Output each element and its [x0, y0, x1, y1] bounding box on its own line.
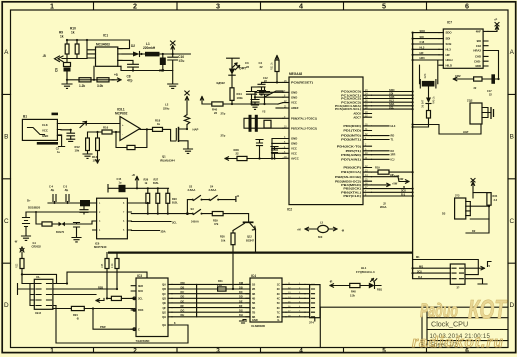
bus wires to IC4	[197, 284, 250, 316]
capacitor C8	[118, 60, 139, 70]
svg-text:1.2k: 1.2k	[79, 84, 85, 88]
IC3 left pins	[131, 286, 136, 330]
title block	[320, 307, 508, 347]
svg-text:9DD: 9DD	[475, 64, 481, 68]
wires bus to header J3	[413, 268, 451, 279]
svg-text:27p: 27p	[221, 112, 226, 116]
pull-up bottoms	[148, 203, 168, 213]
capacitor avcc 2	[271, 147, 278, 159]
svg-text:AVCC: AVCC	[291, 156, 299, 160]
svg-text:1k: 1k	[157, 122, 161, 126]
resistor R13 vertical	[96, 138, 100, 151]
buzzer box ZQ2	[470, 103, 482, 124]
svg-text:2B: 2B	[252, 287, 255, 291]
svg-text:7B: 7B	[252, 310, 255, 314]
title block left edge	[426, 307, 428, 347]
svg-text:4HF: 4HF	[476, 30, 482, 34]
svg-text:R27: R27	[154, 177, 159, 181]
svg-text:DH: DH	[239, 313, 243, 317]
svg-text:radiokot.ru: radiokot.ru	[412, 335, 504, 351]
svg-text:RB1: RB1	[377, 288, 383, 292]
svg-text:DD: DD	[239, 295, 243, 299]
svg-text:DB: DB	[239, 285, 243, 289]
svg-text:R31 1k: R31 1k	[271, 62, 274, 70]
svg-text:ADC7: ADC7	[353, 115, 361, 119]
svg-text:QH: QH	[162, 323, 166, 327]
svg-text:PD0(RXD): PD0(RXD)	[343, 124, 361, 128]
svg-text:9DI: 9DI	[477, 39, 482, 43]
column numbers bottom	[50, 348, 469, 355]
svg-text:QG: QG	[162, 310, 166, 314]
svg-text:+5W: +5W	[392, 181, 398, 185]
svg-text:QB: QB	[162, 287, 166, 291]
svg-text:74HC595D: 74HC595D	[136, 339, 150, 343]
svg-text:QE: QE	[162, 301, 166, 305]
svg-text:BC847: BC847	[246, 239, 255, 243]
column tick marks top	[94, 2, 427, 10]
resistor R26	[146, 193, 150, 203]
svg-text:100k: 100k	[237, 96, 244, 100]
MOSFET Q1	[176, 127, 192, 154]
svg-text:DG: DG	[181, 309, 185, 313]
svg-text:3B: 3B	[252, 292, 255, 296]
svg-text:C: C	[4, 218, 9, 225]
wire row y104	[202, 103, 283, 104]
svg-text:DF: DF	[239, 304, 243, 308]
svg-text:IC1: IC1	[103, 34, 108, 38]
crystal Y1 32K	[422, 81, 435, 87]
svg-text:1k: 1k	[71, 31, 75, 35]
svg-text:5: 5	[382, 2, 386, 11]
svg-text:3?4: 3?4	[309, 321, 314, 325]
svg-text:D3: D3	[442, 212, 446, 216]
svg-text:DH: DH	[181, 313, 185, 317]
MCU left pin stubs	[283, 82, 289, 158]
svg-text:PB7(CLK): PB7(CLK)	[343, 194, 361, 198]
svg-text:SDO: SDO	[446, 31, 453, 35]
crystal Y2 cluster	[244, 118, 283, 128]
svg-text:DC: DC	[239, 290, 243, 294]
svg-text:X1-: X1-	[36, 275, 40, 279]
inductor L1	[145, 52, 160, 57]
svg-text:IC4: IC4	[251, 274, 256, 278]
svg-text:PB1(OC1A): PB1(OC1A)	[341, 170, 361, 174]
svg-text:3FR: 3FR	[391, 153, 396, 157]
caps C-4 C-3	[53, 195, 69, 204]
svg-text:MCP7940: MCP7940	[94, 245, 107, 249]
svg-text:DC: DC	[181, 290, 185, 294]
hanger resistors x107 x117	[107, 253, 117, 299]
svg-text:1k: 1k	[60, 35, 64, 39]
node dots top rail	[66, 39, 68, 41]
svg-text:A: A	[4, 49, 9, 56]
svg-text:2.2k: 2.2k	[350, 293, 356, 297]
sensor pin stubs	[57, 124, 61, 136]
svg-text:22: 22	[236, 152, 240, 156]
ground under C9	[62, 72, 72, 89]
resistor R8	[65, 44, 69, 54]
divider wires	[83, 132, 102, 158]
svg-text:3.0k: 3.0k	[97, 84, 103, 88]
svg-text:4: 4	[299, 348, 303, 355]
svg-text:C15: C15	[117, 177, 122, 181]
svg-text:FYQ5641CA-3: FYQ5641CA-3	[356, 270, 375, 274]
svg-text:6B: 6B	[252, 306, 255, 310]
svg-text:B.BL: B.BL	[172, 201, 178, 205]
diode D2	[122, 53, 133, 55]
svg-text:10k: 10k	[221, 239, 226, 243]
svg-text:R30: R30	[220, 235, 225, 239]
svg-text:3?: 3?	[457, 285, 460, 289]
svg-text:10B: 10B	[101, 263, 104, 268]
diode D6 + resistor chain	[413, 88, 429, 127]
svg-text:3.3: 3.3	[494, 198, 498, 202]
header J3 box	[450, 264, 465, 284]
svg-text:3: 3	[216, 348, 220, 355]
svg-text:CR2032: CR2032	[32, 245, 42, 249]
svg-text:1C: 1C	[277, 283, 280, 287]
capacitor avcc 1	[256, 140, 263, 159]
resistor R16 horizontal	[102, 130, 112, 134]
svg-text:R23: R23	[172, 197, 177, 201]
svg-text:3CL: 3CL	[138, 297, 143, 301]
wire mid rail y54	[140, 53, 191, 55]
svg-text:PD6(AIN0): PD6(AIN0)	[341, 153, 361, 157]
svg-text:-M: -M	[341, 228, 344, 232]
wires MCU to I2C bus	[372, 92, 413, 110]
wire to gate	[163, 129, 176, 141]
capacitor C4	[252, 87, 270, 104]
vertical bus x196.6	[196, 284, 198, 316]
svg-text:C18: C18	[476, 44, 482, 48]
svg-text:CHD: CHD	[475, 55, 481, 59]
svg-text:КОТ: КОТ	[468, 295, 508, 325]
resistor R2B	[166, 193, 170, 203]
svg-text:A: A	[510, 49, 515, 56]
svg-text:5B: 5B	[252, 301, 255, 305]
photo detector FT1	[227, 58, 240, 88]
svg-text:C-3: C-3	[63, 184, 68, 188]
power arrow +B X top	[185, 91, 189, 100]
capacitor C14 + arrow	[119, 185, 126, 192]
svg-text:28AA: 28AA	[380, 205, 387, 209]
svg-text:R-3: R-3	[401, 192, 406, 196]
svg-text:SDI: SDI	[446, 37, 451, 41]
resistor R12 horizontal	[97, 78, 109, 82]
svg-text:PD3(INT1): PD3(INT1)	[341, 138, 361, 142]
svg-text:2.2k: 2.2k	[111, 263, 114, 268]
capacitor C9 electrolytic	[64, 63, 71, 67]
node dots bottom rail	[66, 79, 68, 81]
svg-text:+M: +M	[297, 228, 301, 232]
buzzer wire to bus	[413, 124, 481, 134]
MCU right pin stubs	[363, 92, 372, 197]
row letters right	[509, 49, 514, 309]
wires MCU bottom right nets	[372, 183, 413, 196]
MCU IC2 box	[289, 77, 363, 205]
IC1 right pin stubs	[118, 49, 122, 67]
wire row 214	[131, 213, 187, 215]
resistor R12b vertical	[86, 138, 90, 151]
svg-text:SDO: SDO	[389, 88, 395, 92]
resistor R31 vertical + arrow	[262, 56, 283, 83]
svg-text:VCC: VCC	[291, 147, 297, 151]
svg-text:HILD: HILD	[446, 63, 453, 67]
svg-text:R45 1k: R45 1k	[433, 96, 436, 104]
column tick marks bottom	[94, 348, 427, 353]
svg-text:PD1(TXD): PD1(TXD)	[343, 129, 361, 133]
power arrow +5 right	[471, 179, 475, 193]
svg-text:2: 2	[133, 2, 137, 11]
svg-text:PC5(ADC5-SCL): PC5(ADC5-SCL)	[335, 107, 361, 111]
svg-text:47k: 47k	[214, 222, 219, 226]
svg-text:22: 22	[246, 65, 250, 69]
wire IC7 right down	[488, 51, 499, 80]
resistor R48	[350, 283, 360, 287]
svg-text:CLK: CLK	[42, 123, 48, 127]
cap C-3b	[72, 223, 81, 242]
resistor R10	[75, 44, 79, 54]
svg-text:QD: QD	[162, 297, 166, 301]
svg-text:1: 1	[50, 2, 54, 11]
wire MISO row with resistor R19	[372, 171, 413, 173]
svg-text:-: -	[122, 132, 123, 136]
svg-text:MEGA48: MEGA48	[289, 72, 302, 76]
svg-text:Y2: Y2	[262, 110, 266, 114]
svg-text:+B: +B	[132, 173, 135, 177]
switch row 1: S2 S4	[187, 196, 236, 214]
svg-text:Радио: Радио	[420, 301, 458, 322]
svg-text:D+: D+	[27, 198, 31, 202]
svg-text:220u: 220u	[163, 107, 170, 111]
svg-text:B.BL: B.BL	[153, 181, 159, 185]
wire down right D2	[466, 219, 489, 233]
wire left vertical x87 with IC stubs	[87, 40, 96, 59]
inductor L2 zigzag	[184, 97, 189, 130]
svg-text:BAV70: BAV70	[56, 230, 65, 234]
svg-text:R24: R24	[73, 313, 78, 317]
arrow left -IR	[330, 284, 350, 287]
svg-text:GND: GND	[291, 137, 297, 141]
svg-text:3CL: 3CL	[172, 220, 177, 224]
IC3 box	[136, 278, 168, 337]
svg-text:C9: C9	[55, 68, 59, 72]
svg-text:B: B	[4, 134, 8, 141]
svg-text:DG: DG	[239, 309, 243, 313]
wire sensor out to op-amp	[61, 123, 120, 125]
svg-text:HL3: HL3	[420, 46, 425, 50]
svg-text:GND: GND	[291, 90, 297, 94]
svg-text:IC7: IC7	[447, 20, 452, 24]
svg-text:C18: C18	[420, 40, 425, 44]
svg-text:4: 4	[299, 2, 303, 11]
svg-text:R22: R22	[16, 263, 19, 268]
svg-text:HL3: HL3	[446, 47, 452, 51]
wire diagonal jog to MCU	[265, 91, 284, 97]
svg-text:7C: 7C	[277, 310, 280, 314]
svg-text:1u: 1u	[57, 150, 60, 154]
wire bottom rail y79.8	[67, 66, 114, 80]
AVCC filter row	[225, 157, 283, 161]
svg-text:B: B	[510, 134, 514, 141]
resistor R41 on row 289	[218, 287, 226, 291]
feedback loop R17	[116, 129, 153, 147]
svg-text:R16: R16	[103, 126, 109, 130]
svg-text:ULN2803D: ULN2803D	[251, 324, 265, 328]
wire rows into IC6	[26, 203, 93, 212]
svg-text:R2B: R2B	[98, 285, 103, 289]
svg-text:1u: 1u	[119, 180, 122, 184]
power arrow +5	[200, 97, 203, 105]
svg-text:-IR: -IR	[329, 279, 333, 283]
capacitor C11	[61, 130, 75, 139]
svg-text:DB: DB	[181, 285, 185, 289]
svg-text:ICJ: ICJ	[391, 157, 396, 161]
thick divider line	[108, 251, 413, 253]
svg-text:M: M	[403, 185, 405, 189]
svg-text:PD4(XCK-T0): PD4(XCK-T0)	[337, 144, 361, 148]
column numbers top	[50, 2, 469, 11]
svg-text:PB6(XTAL1-TOSC1): PB6(XTAL1-TOSC1)	[291, 116, 317, 120]
svg-text:+5W: +5W	[398, 177, 404, 181]
svg-text:R48: R48	[351, 290, 356, 294]
svg-text:SCB: SCB	[389, 95, 395, 99]
svg-text:HL3: HL3	[389, 99, 394, 103]
svg-text:+P: +P	[494, 18, 497, 22]
power arrow +5 pullups	[135, 177, 138, 189]
svg-text:R29: R29	[213, 218, 218, 222]
IC3 right pins	[168, 284, 172, 316]
svg-text:R41: R41	[218, 279, 223, 283]
svg-text:КД522: КД522	[217, 81, 226, 85]
ground	[67, 139, 75, 141]
svg-text:4C: 4C	[277, 297, 280, 301]
stub row 108	[276, 107, 283, 109]
svg-text:22: 22	[214, 111, 218, 115]
svg-text:HRA3: HRA3	[473, 49, 481, 53]
P5W wire to IC3 OE	[93, 309, 131, 330]
wire row 176.7 with +5W arrow	[372, 177, 410, 184]
svg-text:QC: QC	[162, 292, 166, 296]
svg-text:DD: DD	[181, 295, 185, 299]
M1 loop wire	[413, 260, 479, 275]
svg-text:2C: 2C	[277, 287, 280, 291]
svg-text:5C: 5C	[277, 301, 280, 305]
svg-text:DM: DM	[239, 281, 243, 285]
svg-text:IC2: IC2	[287, 207, 292, 211]
capacitor C7 electrolytic	[162, 54, 164, 58]
svg-text:D: D	[509, 302, 514, 309]
svg-text:PD7(AIN1): PD7(AIN1)	[341, 157, 361, 161]
svg-text:DE: DE	[239, 299, 243, 303]
op IC1 MC34063 box	[96, 47, 118, 66]
wires IC4 to display conn	[286, 284, 305, 316]
capacitor C3	[247, 87, 257, 104]
svg-text:DF: DF	[181, 304, 185, 308]
svg-text:10k: 10k	[75, 149, 80, 153]
svg-text:HAP: HAP	[463, 130, 469, 134]
svg-text:P5W: P5W	[100, 325, 106, 329]
wire pin3 stub	[58, 135, 65, 147]
svg-text:QA: QA	[162, 283, 166, 287]
svg-text:MCP602: MCP602	[115, 112, 128, 116]
svg-text:SCB: SCB	[446, 42, 452, 46]
svg-text:HIF: HIF	[420, 51, 425, 55]
resistor R33 row 298	[107, 297, 133, 299]
capacitor C10	[168, 54, 178, 71]
wire top rail y40	[67, 40, 130, 49]
svg-text:47p: 47p	[127, 79, 133, 83]
battery CR2 row	[453, 77, 498, 80]
svg-text:PC6(RESET): PC6(RESET)	[291, 81, 313, 85]
svg-text:32K: 32K	[423, 73, 427, 78]
row tick marks right	[508, 94, 516, 263]
svg-text:PB2(SS-OC1B): PB2(SS-OC1B)	[335, 175, 361, 179]
svg-text:1: 1	[50, 348, 54, 355]
svg-text:HAP: HAP	[193, 128, 199, 132]
IC4 ground	[240, 320, 247, 324]
svg-text:CR2: CR2	[455, 74, 461, 78]
svg-text:X2-8: X2-8	[35, 311, 41, 315]
left gnd-vcc block verticals	[272, 139, 283, 159]
header pin3 gnd	[465, 279, 487, 284]
IC7 left pin stubs	[439, 33, 443, 66]
svg-text:HR3: HR3	[420, 56, 426, 60]
svg-text:GND: GND	[42, 134, 48, 138]
wire to IC6 pin 3	[77, 221, 93, 224]
RTC IC7 box	[443, 29, 483, 68]
bus vertical line x412	[412, 33, 414, 279]
bottom route wire	[56, 306, 188, 344]
svg-text:6: 6	[465, 2, 469, 11]
svg-text:R26: R26	[144, 177, 149, 181]
IC7 right pin stubs	[483, 31, 488, 66]
svg-text:2: 2	[133, 348, 137, 355]
svg-text:HL3: HL3	[391, 124, 396, 128]
svg-text:IRLML6344: IRLML6344	[160, 159, 175, 163]
title block row dividers	[427, 318, 508, 341]
svg-text:D6 BAT: D6 BAT	[422, 99, 425, 108]
svg-text:DE: DE	[181, 299, 185, 303]
svg-text:27p: 27p	[221, 134, 226, 138]
svg-text:GND: GND	[291, 142, 297, 146]
resistor R30 vertical	[231, 233, 235, 245]
svg-text:ZQ2: ZQ2	[467, 98, 473, 102]
svg-text:DS18B20: DS18B20	[28, 206, 41, 210]
conn bottom stub	[314, 318, 316, 321]
svg-text:SDI: SDI	[420, 35, 425, 39]
svg-text:C: C	[138, 327, 140, 331]
resistor R27	[156, 193, 160, 203]
svg-text:D: D	[4, 302, 9, 309]
arrow left row 300	[96, 298, 104, 302]
svg-text:VCC: VCC	[42, 129, 48, 133]
sensor B1 box	[22, 119, 57, 140]
resistor R11 horizontal	[79, 78, 91, 82]
wire connector down to frame	[319, 307, 321, 347]
header left T-bar	[18, 284, 35, 306]
wire resistor verticals	[62, 40, 87, 63]
header X2 box	[34, 279, 53, 309]
resistor R44 vertical	[230, 88, 234, 101]
svg-text:MQ: MQ	[419, 265, 423, 269]
svg-text:22: 22	[260, 65, 264, 69]
power arrow +B up over C10	[171, 41, 176, 54]
svg-text:M1: M1	[416, 255, 420, 259]
svg-text:3-BAA: 3-BAA	[188, 188, 196, 192]
capacitor C12 on reset	[258, 82, 266, 95]
svg-text:MC34063: MC34063	[96, 43, 110, 47]
